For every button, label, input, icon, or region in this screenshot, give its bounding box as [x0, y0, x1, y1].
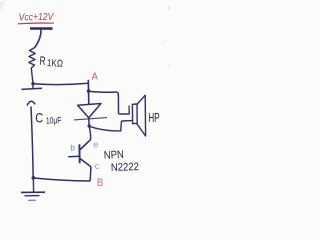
capacitor C1 curved plate: [27, 101, 35, 105]
paper speck 1: [168, 7, 170, 9]
speaker cone: [137, 95, 146, 136]
svg-text:e: e: [93, 140, 98, 151]
paper speck 2: [162, 42, 164, 44]
resistor R1 zigzag: [29, 48, 35, 69]
collector diagonal: [80, 140, 91, 150]
node A junction dot: [87, 89, 91, 93]
svg-text:1KΩ: 1KΩ: [47, 58, 64, 70]
capacitor C1 top plate: [22, 88, 43, 89]
svg-text:A: A: [92, 71, 99, 82]
wire diode to collector: [89, 127, 90, 140]
svg-text:B: B: [97, 177, 104, 189]
emitter diagonal: [80, 158, 91, 167]
svg-text:Vcc+12V: Vcc+12V: [19, 12, 55, 24]
svg-text:10µF: 10µF: [46, 115, 62, 126]
diode bottom wire: [88, 118, 90, 127]
emitter wire down: [89, 167, 92, 181]
diode cathode bar: [74, 118, 107, 120]
label R 1KΩ: [39, 54, 64, 70]
svg-text:c: c: [95, 161, 100, 172]
speaker top tick: [128, 106, 130, 115]
wire resistor to junction: [31, 68, 33, 84]
wire node A to speaker top: [89, 91, 119, 113]
speaker HP body: [132, 104, 137, 124]
junction dot J1: [31, 82, 34, 85]
wire diode junction to speaker bottom: [89, 121, 121, 131]
paper speck 3: [168, 65, 171, 69]
paper corner smudge: [0, 0, 6, 12]
svg-text:N2222: N2222: [111, 161, 139, 174]
speaker bottom stub: [122, 120, 133, 122]
ground bar 1: [21, 191, 45, 193]
ground junction dot: [32, 176, 36, 180]
junction dot below diode: [88, 124, 91, 127]
base lead: [68, 155, 79, 158]
capacitor C1 stub: [32, 84, 34, 88]
Vcc underline: [18, 22, 54, 25]
transistor Q1 base bar: [78, 144, 80, 163]
svg-text:b: b: [70, 143, 75, 152]
ground bar 2: [25, 195, 40, 197]
wire cap to ground junction: [31, 107, 33, 178]
svg-text:HP: HP: [148, 110, 160, 125]
speaker top stub: [119, 113, 130, 115]
Vcc rail bar: [30, 27, 53, 30]
ground wire to emitter: [34, 178, 90, 181]
wire rail to resistor: [35, 30, 41, 48]
diode D1 triangle: [78, 104, 101, 118]
svg-text:C: C: [35, 110, 43, 126]
svg-text:NPN: NPN: [104, 149, 125, 162]
ground stem: [32, 178, 34, 192]
wire J1 to node A: [34, 83, 89, 84]
node A stub: [87, 80, 90, 105]
svg-text:R: R: [39, 54, 46, 68]
ground bar 3: [28, 199, 36, 201]
